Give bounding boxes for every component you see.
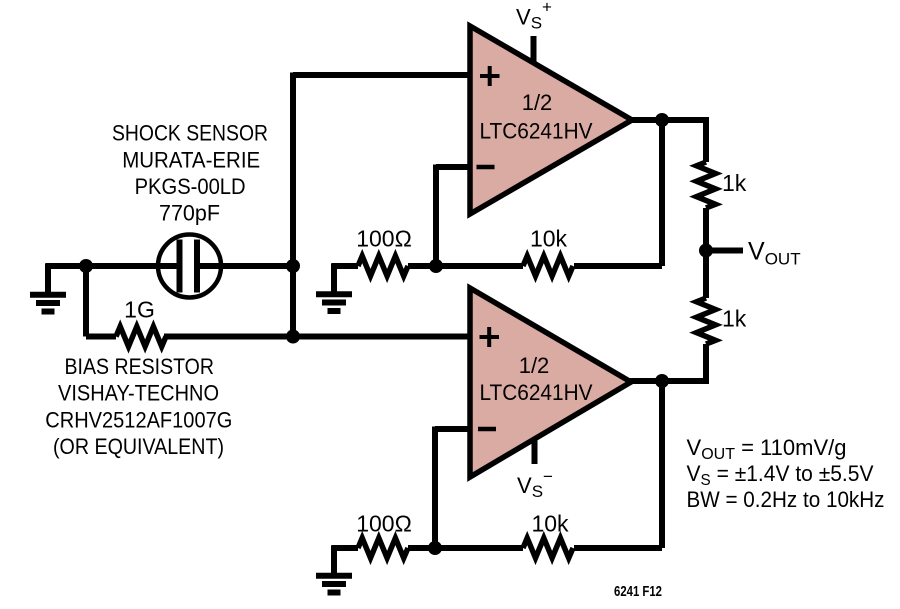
node: bottom output junction bbox=[655, 374, 669, 388]
wire: top 100ohm ground stub bbox=[331, 264, 337, 292]
wire: sensor line left segment bbox=[46, 263, 183, 269]
node: top output junction bbox=[655, 113, 669, 127]
text: shock sensor caption bbox=[112, 120, 268, 225]
wire: divider bottom to output of U1b bbox=[629, 344, 706, 381]
node: top 100/10k junction bbox=[429, 259, 443, 273]
wire: bottom 10k leads bbox=[435, 545, 662, 551]
svg-text:BIAS RESISTOR: BIAS RESISTOR bbox=[65, 354, 215, 379]
wire: bottom feedback vertical bbox=[659, 381, 665, 548]
resistor 10k (top) bbox=[523, 256, 573, 276]
ground (bottom 100ohm) bbox=[316, 576, 352, 593]
svg-text:(OR EQUIVALENT): (OR EQUIVALENT) bbox=[53, 434, 224, 459]
wire: -input drop to 100ohm/10k node bbox=[433, 165, 439, 267]
node: VOUT junction bbox=[699, 244, 713, 258]
node: bottom 100/10k junction bbox=[428, 541, 442, 555]
resistor 1k (lower) bbox=[697, 298, 716, 344]
wire: bottom 100ohm ground stub bbox=[331, 546, 337, 574]
wire: bias line to bottom +input bbox=[86, 334, 470, 340]
wire: bottom 100ohm leads bbox=[332, 545, 436, 551]
svg-text:MURATA-ERIE: MURATA-ERIE bbox=[122, 148, 260, 173]
node: sensor-left junction bbox=[79, 259, 93, 273]
wire: bottom -input stub bbox=[435, 426, 470, 432]
text: specs block bbox=[687, 435, 885, 512]
plus symbol (noninverting input U1a) bbox=[480, 66, 500, 86]
svg-text:SHOCK SENSOR: SHOCK SENSOR bbox=[112, 120, 268, 145]
wire: top 10k leads bbox=[436, 263, 662, 269]
svg-text:PKGS-00LD: PKGS-00LD bbox=[135, 174, 246, 199]
wire: top feedback vertical bbox=[659, 120, 665, 266]
svg-text:770pF: 770pF bbox=[159, 201, 220, 226]
wire: VOUT stub bbox=[706, 248, 743, 254]
supply VS- stub bbox=[532, 440, 538, 464]
node: sensor-right junction bbox=[286, 259, 300, 273]
wire: left ground drop bbox=[45, 264, 51, 293]
svg-text:100Ω: 100Ω bbox=[356, 511, 412, 537]
minus symbol (inverting input U1a) bbox=[477, 165, 495, 170]
wire: top -input stub bbox=[436, 164, 470, 170]
resistor 10k (bottom) bbox=[523, 538, 573, 558]
svg-text:1G: 1G bbox=[124, 297, 155, 323]
svg-text:1/2: 1/2 bbox=[522, 90, 553, 115]
wire: top output bbox=[630, 120, 706, 162]
svg-text:CRHV2512AF1007G: CRHV2512AF1007G bbox=[45, 407, 232, 432]
wire: divider middle bbox=[703, 208, 709, 298]
svg-text:10k: 10k bbox=[530, 226, 568, 252]
wire: bias resistor left drop bbox=[83, 266, 89, 337]
node: bias/+input junction bbox=[286, 330, 300, 344]
svg-text:6241 F12: 6241 F12 bbox=[614, 584, 662, 600]
svg-text:LTC6241HV: LTC6241HV bbox=[480, 119, 593, 144]
svg-text:1k: 1k bbox=[722, 306, 747, 332]
resistor 1k (upper) bbox=[697, 162, 716, 208]
svg-text:VISHAY-TECHNO: VISHAY-TECHNO bbox=[58, 381, 219, 406]
wire: top 100ohm leads bbox=[332, 263, 437, 269]
resistor 100 ohm (bottom) bbox=[358, 538, 408, 558]
resistor 100 ohm (top) bbox=[358, 256, 408, 276]
text: bias resistor caption bbox=[45, 354, 232, 459]
svg-text:10k: 10k bbox=[531, 511, 569, 537]
shock sensor (Murata PKGS-00LD) bbox=[158, 235, 221, 298]
svg-text:1/2: 1/2 bbox=[519, 353, 550, 378]
wire: bottom -input drop bbox=[432, 427, 438, 549]
ground (left of sensor) bbox=[30, 295, 66, 312]
ground (top 100ohm) bbox=[316, 294, 352, 311]
svg-text:100Ω: 100Ω bbox=[356, 226, 412, 252]
resistor 1G (zigzag) bbox=[116, 327, 166, 347]
supply VS+ stub bbox=[531, 36, 537, 64]
plus symbol (noninverting input U1b) bbox=[480, 327, 500, 347]
wire: left vertical from +input down to bias line bbox=[290, 73, 296, 337]
minus symbol (inverting input U1b) bbox=[478, 427, 496, 432]
op-amp U1a (top 1/2 LTC6241HV) bbox=[470, 26, 632, 214]
svg-text:BW = 0.2Hz to 10kHz: BW = 0.2Hz to 10kHz bbox=[687, 487, 885, 512]
wire: top +input horizontal bbox=[293, 72, 470, 78]
wire: sensor line right segment bbox=[196, 263, 293, 269]
svg-text:LTC6241HV: LTC6241HV bbox=[480, 380, 593, 405]
op-amp U1b (bottom 1/2 LTC6241HV) bbox=[470, 288, 631, 477]
svg-text:VS = ±1.4V to ±5.5V: VS = ±1.4V to ±5.5V bbox=[687, 461, 874, 489]
svg-text:1k: 1k bbox=[722, 170, 747, 196]
